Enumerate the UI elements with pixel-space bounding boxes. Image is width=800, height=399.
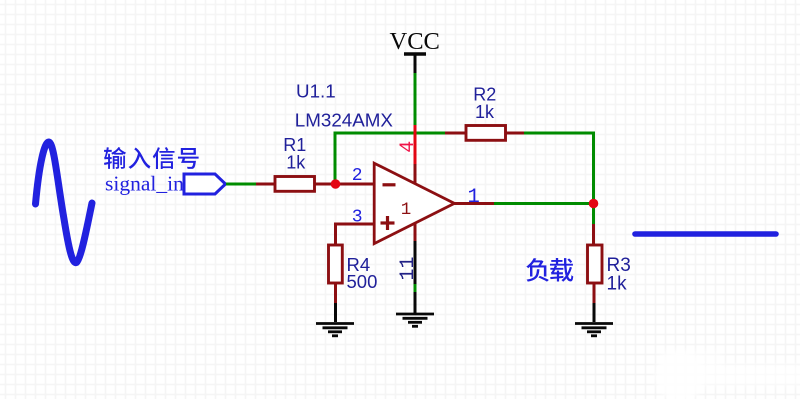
resistor R1	[256, 177, 335, 192]
ground symbol (R3)	[575, 324, 613, 336]
op-amp U1.1 LM324AMX	[374, 163, 454, 243]
wire output down to R3	[592, 204, 595, 225]
watermark	[655, 349, 800, 399]
wire feedback vertical left	[334, 132, 337, 185]
output waveform line	[635, 231, 776, 237]
svg-text:11: 11	[397, 256, 420, 280]
svg-text:500: 500	[347, 271, 378, 292]
svg-text:U1.1: U1.1	[296, 81, 336, 102]
svg-text:signal_in: signal_in	[105, 172, 184, 196]
wire VCC down	[414, 73, 417, 125]
pin 4 (power pin, highlighted red)	[414, 125, 417, 164]
wire feedback horizontal	[334, 132, 446, 135]
svg-text:1k: 1k	[286, 153, 306, 173]
pin 11 wire	[414, 223, 417, 242]
power port VCC	[390, 28, 440, 73]
resistor R4	[329, 245, 343, 283]
svg-text:1k: 1k	[475, 102, 495, 122]
junction node A (inverting input)	[331, 179, 341, 189]
ground symbol (R4)	[316, 324, 354, 336]
svg-text:3: 3	[352, 207, 363, 227]
pin 2 wire	[335, 183, 374, 186]
svg-text:1: 1	[468, 186, 480, 209]
wire port to R1	[226, 183, 258, 186]
svg-text:2: 2	[352, 166, 363, 186]
port symbol signal_in	[184, 174, 226, 194]
R3 lead to ground	[593, 284, 596, 303]
label 输入信号 (input signal)	[104, 147, 126, 169]
svg-text:1: 1	[401, 200, 412, 220]
svg-text:1k: 1k	[607, 274, 628, 295]
svg-text:4: 4	[397, 141, 420, 153]
junction node output	[589, 199, 599, 209]
wire R2 to output corner	[524, 133, 594, 204]
plus sign (pin 3 non-inverting)	[381, 221, 395, 224]
minus sign (pin 2 inverting)	[383, 183, 396, 186]
sine wave source symbol	[36, 142, 93, 263]
pin 1 wire (output)	[454, 202, 494, 205]
resistor R2	[445, 126, 526, 141]
pin 3 wire	[336, 224, 375, 244]
resistor R3 (load)	[592, 224, 595, 244]
R4 lead to ground	[334, 284, 337, 303]
svg-text:LM324AMX: LM324AMX	[295, 110, 394, 131]
svg-text:VCC: VCC	[390, 28, 440, 55]
ground symbol (pin 11)	[396, 314, 434, 326]
label 负载 (load)	[526, 258, 549, 282]
